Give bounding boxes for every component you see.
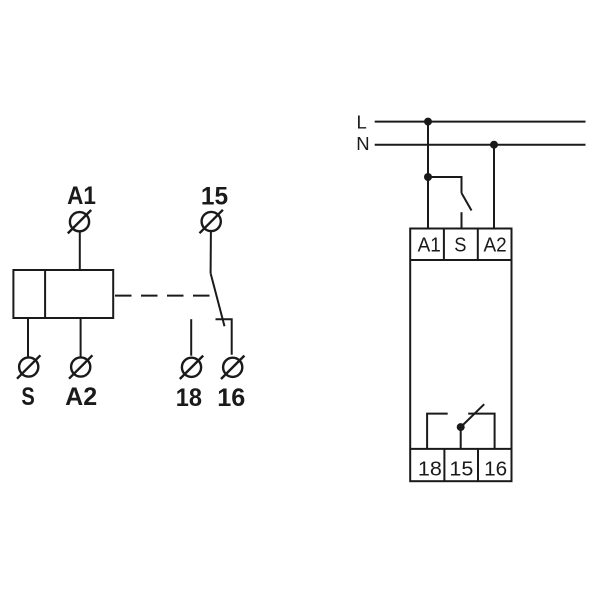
relay contact 18 bracket (internal) — [427, 414, 448, 449]
terminal A2 (circle with slash) — [69, 355, 92, 378]
top terminal strip bottom line — [410, 259, 511, 261]
wire contact to 15 terminal — [460, 427, 462, 449]
terminal 16 (circle with slash) — [221, 356, 244, 379]
node junction on N — [490, 141, 498, 149]
wire branch to switch — [428, 177, 462, 193]
wire N line — [375, 144, 586, 146]
svg-text:A1: A1 — [418, 234, 441, 256]
relay contact blade from 15 — [461, 404, 485, 427]
svg-text:16: 16 — [217, 384, 245, 412]
top strip divider S|A2 — [477, 229, 479, 261]
wire switch to S terminal — [461, 212, 463, 228]
bottom terminal strip top line — [410, 448, 511, 450]
coil box (relay coil K1) — [13, 270, 113, 318]
wire A2 from coil box — [80, 318, 82, 357]
bottom strip divider 15|16 — [477, 449, 479, 481]
wire L line — [375, 121, 586, 123]
terminal 18 (circle with slash) — [180, 356, 203, 379]
terminal 15 (circle with slash) — [200, 210, 223, 233]
wire S from coil box — [27, 318, 29, 357]
wire A1 to coil box — [79, 231, 81, 270]
node junction on L — [424, 118, 432, 126]
wire 15 down — [210, 231, 212, 273]
svg-text:S: S — [21, 383, 34, 411]
switch S blade (external start switch) — [462, 193, 472, 211]
wire L to A1 terminal — [427, 122, 429, 229]
svg-text:18: 18 — [418, 459, 442, 481]
svg-text:A1: A1 — [67, 182, 96, 210]
svg-text:15: 15 — [449, 459, 473, 481]
node branch to switch S — [424, 173, 432, 181]
terminal A1 (circle with slash) — [68, 210, 91, 233]
contact 18 fixed stub wire — [190, 319, 192, 356]
contact 16 fixed bracket and wire — [216, 319, 232, 355]
bottom strip divider 18|15 — [443, 449, 445, 481]
terminal S (circle with slash) — [17, 355, 40, 378]
device body outline — [410, 229, 511, 482]
relay contact 16 bracket (internal) — [468, 414, 494, 449]
svg-text:A2: A2 — [484, 234, 507, 256]
node contact pivot 15 — [457, 423, 465, 431]
dashed actuation link coil to contact — [115, 295, 212, 297]
top strip divider A1|S — [443, 229, 445, 261]
svg-text:S: S — [454, 234, 466, 256]
svg-text:N: N — [356, 133, 369, 154]
svg-text:16: 16 — [484, 459, 507, 481]
coil box divider — [44, 270, 46, 318]
svg-text:A2: A2 — [65, 383, 97, 411]
wire N to A2 terminal — [493, 145, 495, 229]
contact blade from 15 — [211, 273, 225, 326]
svg-text:18: 18 — [176, 384, 202, 412]
svg-text:L: L — [357, 112, 367, 133]
svg-text:15: 15 — [201, 183, 228, 211]
